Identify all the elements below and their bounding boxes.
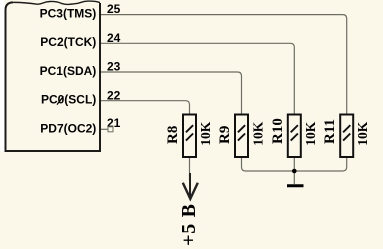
svg-text:R10: R10: [270, 118, 286, 144]
svg-text:10K: 10K: [198, 121, 213, 146]
svg-text:10K: 10K: [355, 121, 370, 146]
svg-text:PC2(TCK): PC2(TCK): [40, 35, 96, 49]
svg-text:+5 В: +5 В: [178, 203, 200, 246]
svg-text:21: 21: [107, 116, 121, 130]
svg-text:PD7(OC2): PD7(OC2): [40, 121, 96, 135]
svg-text:R9: R9: [217, 126, 233, 144]
svg-text:10K: 10K: [303, 121, 318, 146]
svg-text:10K: 10K: [250, 121, 265, 146]
svg-text:R8: R8: [165, 126, 181, 144]
svg-text:R11: R11: [322, 119, 338, 144]
svg-text:PC0(SCL): PC0(SCL): [41, 93, 96, 107]
svg-text:PC3(TMS): PC3(TMS): [40, 7, 97, 21]
svg-text:PC1(SDA): PC1(SDA): [40, 64, 97, 78]
